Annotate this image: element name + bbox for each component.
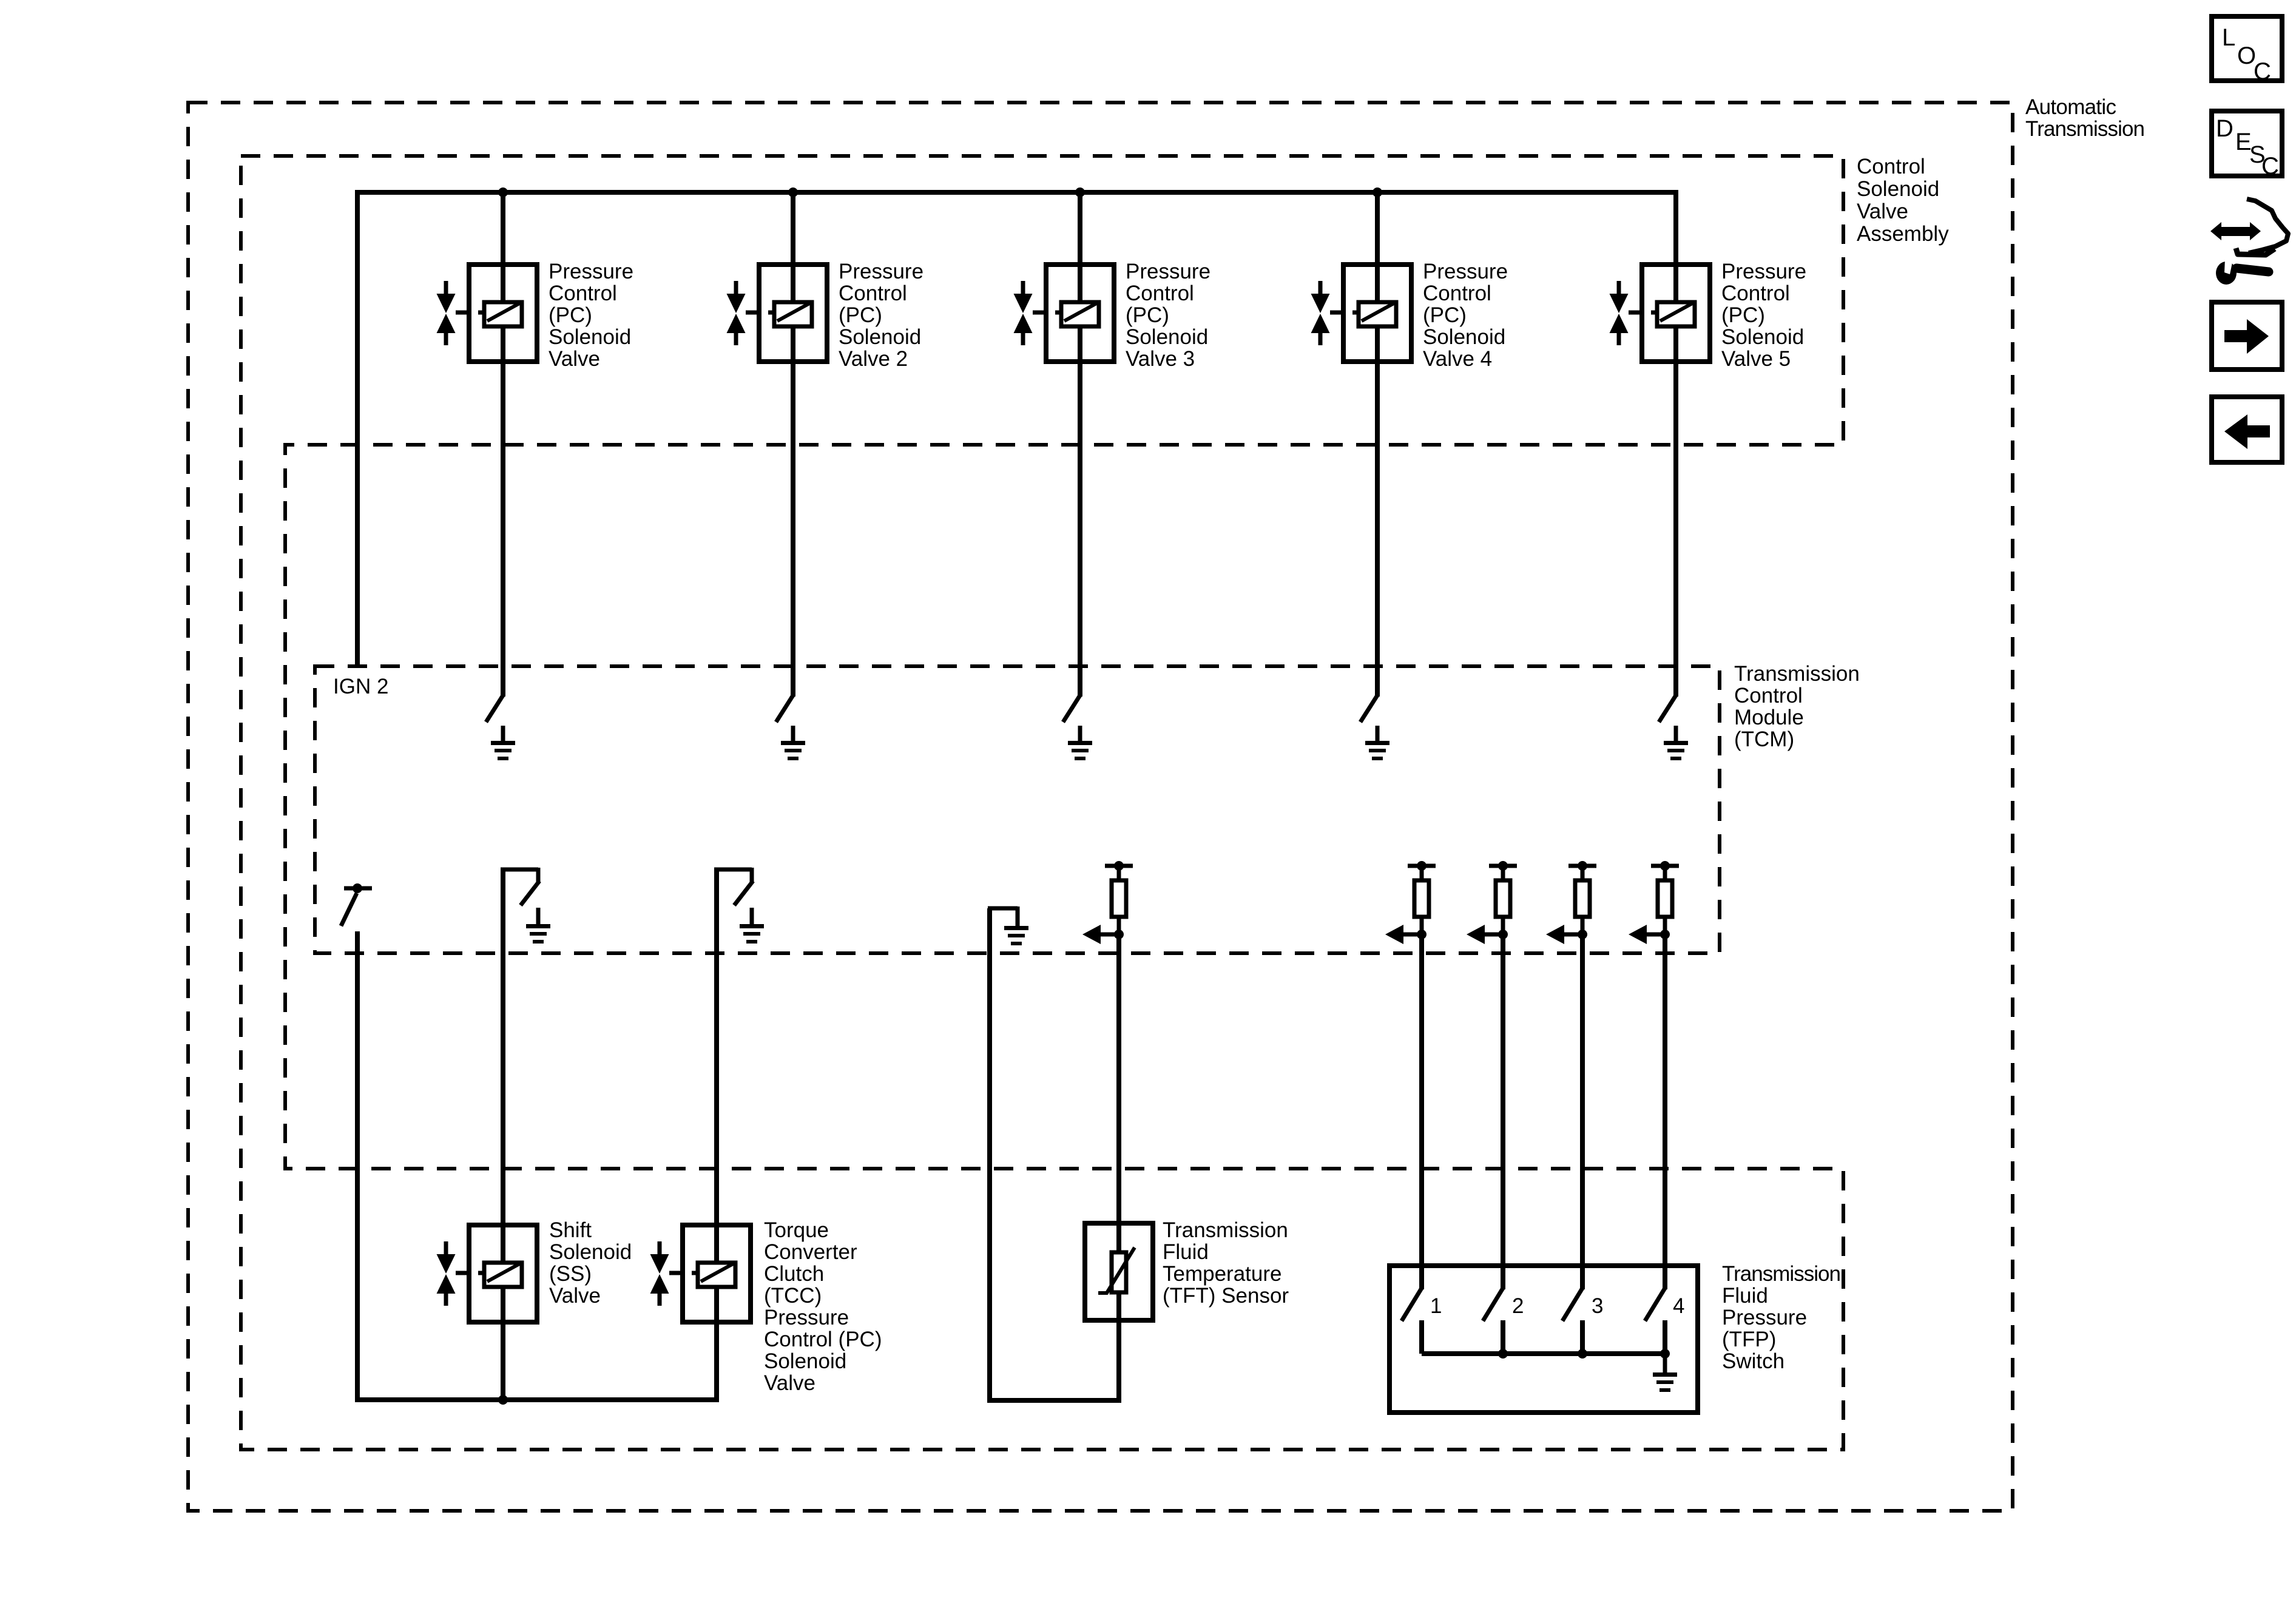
svg-text:Solenoid: Solenoid (764, 1349, 846, 1373)
icon wrench with arrows (service info) (2210, 222, 2261, 240)
svg-text:Solenoid: Solenoid (549, 325, 631, 349)
resistor TCM TFT pull-up with signal arrow (1105, 864, 1133, 868)
resistor TCM TFP sense 3 with arrow (1568, 864, 1596, 868)
svg-text:Solenoid: Solenoid (1423, 325, 1505, 349)
switch TCM low-side driver PC2 (776, 695, 793, 722)
resistor TCM TFP sense 4 with arrow (1651, 864, 1679, 868)
solenoid valve PC4 (1343, 265, 1411, 362)
svg-text:2: 2 (1512, 1294, 1524, 1318)
wire TFT sensor return (hook to bottom rail to sensor) (990, 908, 1119, 1400)
svg-text:Clutch: Clutch (764, 1262, 824, 1286)
svg-text:(PC): (PC) (1423, 303, 1467, 327)
switch TFP contact 2 lever (1483, 1288, 1503, 1321)
svg-text:C: C (2254, 58, 2271, 85)
svg-text:1: 1 (1430, 1294, 1442, 1318)
svg-text:Solenoid: Solenoid (1126, 325, 1208, 349)
wire TFP common bus (1422, 1351, 1665, 1356)
junction TFP common bus (1498, 1349, 1508, 1359)
ground TCM driver PC3 (1078, 726, 1082, 743)
Transmission Control Module (TCM) boundary (dashed box) (315, 666, 1720, 953)
svg-text:Pressure: Pressure (1126, 260, 1210, 283)
wire TFP contact 4 stub (1663, 1320, 1667, 1354)
icon box LOC (2212, 16, 2282, 81)
svg-text:Torque: Torque (764, 1218, 829, 1242)
svg-text:Transmission: Transmission (1722, 1262, 1841, 1286)
junction bus / PC solenoid 1 branch (498, 187, 508, 197)
ground TCM driver PC2 (791, 726, 795, 743)
ground TCM driver PC4 (1376, 726, 1380, 743)
svg-text:Valve: Valve (549, 1284, 601, 1308)
switch TCM low-side driver PC3 (1063, 695, 1080, 722)
wire TFP sense 2 (1501, 934, 1505, 1289)
svg-text:Module: Module (1734, 706, 1804, 729)
svg-text:Valve 5: Valve 5 (1721, 347, 1791, 371)
svg-text:Solenoid: Solenoid (1857, 177, 1939, 201)
solenoid valve PC5 (1642, 265, 1710, 362)
ground TCM TFT return (988, 906, 1018, 911)
svg-text:Pressure: Pressure (549, 260, 633, 283)
svg-text:Solenoid: Solenoid (549, 1240, 632, 1264)
wire TCC valve branch (714, 868, 719, 1326)
svg-text:Control: Control (839, 282, 907, 305)
svg-text:(TCM): (TCM) (1734, 727, 1794, 751)
wire SS valve branch (501, 868, 505, 1400)
Control Solenoid Valve Assembly boundary (dashed polygon with notch) (241, 156, 1843, 1450)
switch TFP contact 4 lever (1645, 1288, 1665, 1321)
wire IGN2 return rail (switch down, bottom rail to TCC) (357, 931, 717, 1400)
svg-text:(PC): (PC) (839, 303, 882, 327)
junction bottom rail / SS valve wire (498, 1395, 508, 1405)
switch TCM low-side driver PC4 (1360, 695, 1377, 722)
wire PC solenoid 1 branch (bus to TCM driver) (501, 192, 505, 697)
svg-text:(PC): (PC) (1126, 303, 1169, 327)
wire TFP sense 3 (1580, 934, 1585, 1289)
wire TFT signal (1116, 934, 1121, 1323)
wire TFP sense 4 (1663, 934, 1667, 1289)
junction TFP common bus (1578, 1349, 1587, 1359)
svg-text:IGN 2: IGN 2 (333, 675, 388, 698)
svg-text:(TFP): (TFP) (1722, 1328, 1776, 1351)
svg-text:Pressure: Pressure (764, 1306, 849, 1329)
component TFP switch housing box (1389, 1266, 1698, 1413)
svg-text:(TCC): (TCC) (764, 1284, 822, 1308)
solenoid valve PC3 (1046, 265, 1114, 362)
switch TFP contact 3 lever (1562, 1288, 1582, 1321)
switch TFP contact 1 lever (1402, 1288, 1422, 1321)
svg-text:Valve: Valve (549, 347, 600, 371)
svg-text:Fluid: Fluid (1163, 1240, 1209, 1264)
svg-text:Control: Control (1126, 282, 1194, 305)
junction bus / PC solenoid 2 branch (788, 187, 798, 197)
junction bus / PC solenoid 4 branch (1373, 187, 1382, 197)
resistor TCM TFP sense 2 with arrow (1489, 864, 1517, 868)
svg-text:(PC): (PC) (549, 303, 592, 327)
switch TCM SS driver hook (501, 868, 538, 872)
switch TCM ignition input (344, 886, 372, 891)
switch TCM low-side driver PC1 (486, 695, 503, 722)
solenoid Torque Converter Clutch (TCC) PC Solenoid Valve (683, 1225, 751, 1322)
svg-text:C: C (2261, 153, 2279, 180)
resistor TCM TFP sense 1 with arrow (1408, 864, 1436, 868)
wire TFP contact 1 stub (1419, 1320, 1424, 1354)
svg-text:Transmission: Transmission (1163, 1218, 1288, 1242)
wire PC solenoid 4 branch (bus to TCM driver) (1375, 192, 1380, 697)
svg-text:Control: Control (1423, 282, 1491, 305)
svg-text:(PC): (PC) (1721, 303, 1765, 327)
svg-text:Fluid: Fluid (1722, 1284, 1768, 1308)
Automatic Transmission boundary (dashed box) (188, 103, 2013, 1511)
junction bus / PC solenoid 3 branch (1075, 187, 1085, 197)
wire TFP contact 3 stub (1580, 1320, 1585, 1354)
solenoid valve PC1 (469, 265, 537, 362)
svg-text:Control: Control (1857, 155, 1925, 178)
wire PC solenoid 5 branch (bus to TCM driver) (1673, 192, 1678, 697)
svg-text:Valve 3: Valve 3 (1126, 347, 1195, 371)
svg-text:3: 3 (1592, 1294, 1603, 1318)
switch TCM low-side driver PC5 (1659, 695, 1676, 722)
svg-text:(TFT) Sensor: (TFT) Sensor (1163, 1284, 1289, 1308)
svg-text:Converter: Converter (764, 1240, 857, 1264)
ground TCM driver PC5 (1674, 726, 1678, 743)
svg-text:(SS): (SS) (549, 1262, 592, 1286)
junction TFP common bus (1660, 1349, 1670, 1359)
svg-text:Pressure: Pressure (1722, 1306, 1807, 1329)
ground TCM driver PC1 (501, 726, 505, 743)
switch TCM TCC driver hook (714, 868, 752, 872)
svg-text:Valve: Valve (764, 1371, 815, 1395)
wire TFP sense 1 (1419, 934, 1424, 1289)
svg-text:Automatic: Automatic (2025, 95, 2116, 119)
svg-text:Solenoid: Solenoid (839, 325, 921, 349)
wire IGN2 feed: bus top rail with left drop (357, 192, 1678, 666)
svg-text:Valve 4: Valve 4 (1423, 347, 1492, 371)
wire PC solenoid 2 branch (bus to TCM driver) (791, 192, 795, 697)
svg-text:Control (PC): Control (PC) (764, 1328, 882, 1351)
wire TFP contact 2 stub (1501, 1320, 1505, 1354)
svg-text:L: L (2222, 24, 2235, 51)
icon box forward arrow (2212, 302, 2282, 370)
svg-text:Assembly: Assembly (1857, 222, 1949, 246)
svg-text:Control: Control (549, 282, 617, 305)
svg-text:4: 4 (1673, 1294, 1684, 1318)
solenoid Shift Solenoid (SS) Valve (469, 1225, 537, 1322)
icon box back arrow (2212, 397, 2282, 462)
svg-text:Transmission: Transmission (1734, 662, 1860, 686)
svg-text:Control: Control (1721, 282, 1790, 305)
svg-text:Valve: Valve (1857, 200, 1908, 223)
svg-text:Shift: Shift (549, 1218, 592, 1242)
svg-text:Pressure: Pressure (839, 260, 923, 283)
svg-text:Pressure: Pressure (1423, 260, 1508, 283)
sensor Transmission Fluid Temperature (TFT) (1085, 1223, 1153, 1320)
ground TFP switch common (1663, 1354, 1667, 1374)
svg-text:D: D (2216, 115, 2234, 142)
icon box DESC (2212, 111, 2282, 176)
svg-text:Solenoid: Solenoid (1721, 325, 1804, 349)
svg-text:Control: Control (1734, 684, 1803, 707)
svg-text:Switch: Switch (1722, 1349, 1784, 1373)
svg-text:Valve 2: Valve 2 (839, 347, 908, 371)
wire PC solenoid 3 branch (bus to TCM driver) (1078, 192, 1082, 697)
solenoid valve PC2 (759, 265, 827, 362)
svg-text:Pressure: Pressure (1721, 260, 1806, 283)
svg-text:Transmission: Transmission (2025, 117, 2145, 141)
svg-text:Temperature: Temperature (1163, 1262, 1281, 1286)
